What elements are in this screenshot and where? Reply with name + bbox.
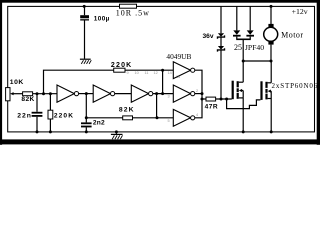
- wire: U1b out: [115, 93, 132, 95]
- svg-text:47R: 47R: [205, 104, 219, 111]
- wire: U1a out: [79, 93, 94, 95]
- svg-text:11: 11: [145, 71, 149, 75]
- inverter U1b: [93, 85, 110, 102]
- wire: U1f out up to common node: [195, 99, 202, 118]
- svg-text:10R .5w: 10R .5w: [116, 9, 150, 18]
- svg-text:100µ: 100µ: [94, 15, 110, 22]
- outer border frame: [0, 0, 320, 145]
- wire: drain tie bus between MOSFET drains / motor / diodes: [243, 60, 271, 62]
- svg-text:2xSTP60N06: 2xSTP60N06: [272, 82, 319, 90]
- wire: U1e out to common node: [195, 70, 202, 99]
- svg-text:22n: 22n: [17, 112, 32, 119]
- svg-text:4049UB: 4049UB: [166, 52, 191, 61]
- wire: chain node down to lower line: [156, 94, 158, 118]
- node: junction dot at 100µ tap on +12V rail: [83, 5, 86, 8]
- resistor 47R (gate): [202, 98, 206, 100]
- wire: U1d out: [195, 93, 202, 95]
- svg-text:9: 9: [127, 71, 129, 75]
- wire: lower line from 2n2 node to 82K: [86, 117, 122, 119]
- wire: feedback to inverter U1e input: [125, 69, 173, 71]
- resistor 220K (feedback): [114, 68, 125, 72]
- wire: Q2 source to ground rail: [270, 99, 272, 132]
- capacitor 22n: [36, 94, 38, 112]
- wire: gate line: [216, 98, 232, 100]
- wire: pot wiper arrow: [10, 92, 14, 95]
- wire: 82K to U1f input: [133, 117, 174, 119]
- wire: gate link staircase to Q2: [227, 99, 261, 109]
- wire: inner frame (+12V top rail, left bus, ground bottom rail, right bus): [8, 6, 315, 131]
- svg-text:2: 2: [196, 89, 198, 93]
- capacitor 100µ (electrolytic): [80, 15, 89, 18]
- wire: Q1 source to ground rail: [242, 98, 244, 132]
- svg-text:25: 25: [234, 43, 242, 52]
- wire: Q2 drain up to drain bus: [270, 61, 272, 83]
- svg-text:5: 5: [168, 119, 170, 123]
- node: feedback tap: [42, 92, 45, 95]
- svg-text:Motor: Motor: [281, 31, 304, 40]
- resistor 82K (to U1f input): [123, 116, 133, 120]
- inverter U1a: [57, 85, 74, 102]
- svg-text:36v: 36v: [203, 33, 214, 40]
- node: 220K tap: [49, 92, 52, 95]
- svg-text:82K: 82K: [119, 107, 135, 114]
- ground (bottom rail): [115, 130, 118, 133]
- svg-text:JPF40: JPF40: [245, 43, 264, 52]
- ground (100µ): [80, 59, 91, 60]
- pin numbers (faint): [127, 71, 199, 123]
- resistor 220K (oscillator, to ground): [49, 94, 51, 111]
- svg-text:4: 4: [196, 113, 198, 117]
- mosfet Q2 (STP60N06): [260, 81, 262, 100]
- svg-text:+12v: +12v: [292, 7, 308, 16]
- potentiometer 10K (on left bus): [6, 88, 10, 101]
- svg-text:2n2: 2n2: [93, 120, 105, 127]
- diodes 25JPF40 (two freewheel diodes from +12V rail): [236, 6, 238, 30]
- resistor 82K (wiper series): [23, 92, 33, 96]
- wire: input node line: [33, 93, 57, 95]
- wire: 100µ bottom lead to ground: [84, 21, 86, 59]
- inverter U1f (bottom): [173, 109, 190, 126]
- wire: feedback riser: [44, 70, 114, 94]
- svg-text:3: 3: [168, 95, 170, 99]
- svg-text:220K: 220K: [111, 62, 133, 69]
- node: 22n tap: [36, 92, 39, 95]
- svg-text:220K: 220K: [54, 112, 74, 119]
- motor: [270, 5, 273, 8]
- svg-text:14: 14: [168, 71, 172, 75]
- svg-text:10K: 10K: [10, 79, 24, 86]
- wire: diode cathode tie bar: [236, 38, 251, 40]
- wire: U1c out: [153, 93, 174, 95]
- svg-text:15: 15: [176, 75, 180, 79]
- svg-text:12: 12: [154, 71, 158, 75]
- inverter U1d: [173, 85, 190, 102]
- wire: 100µ top lead: [84, 6, 86, 15]
- inverter U1e (top, buffer from feedback line): [173, 62, 190, 79]
- mosfet Q1 (STP60N06): [232, 81, 234, 100]
- zener diodes 36v (two in series from +12V rail to gate line): [220, 6, 222, 33]
- capacitor 2n2: [85, 94, 87, 123]
- wire: link from feedback node down to chain node: [162, 70, 164, 93]
- resistor 10R .5w (series in +12V rail): [120, 4, 137, 8]
- svg-text:82K: 82K: [21, 96, 34, 103]
- svg-text:10: 10: [135, 71, 139, 75]
- inverter U1c: [131, 85, 148, 102]
- wire: diode tie drop to drain bus: [242, 39, 244, 61]
